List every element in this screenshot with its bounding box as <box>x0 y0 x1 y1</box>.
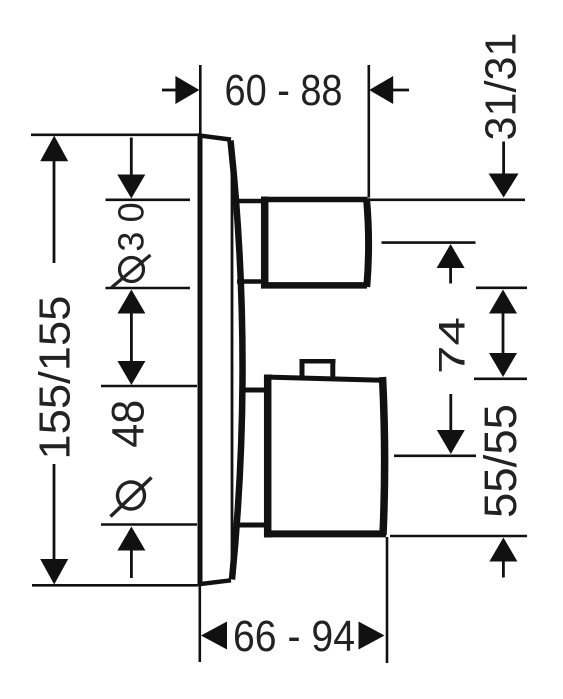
dim 155/155 bottom arrowhead <box>40 559 68 585</box>
extension line d30 bottom <box>106 287 191 290</box>
top stem lower edge <box>237 279 263 284</box>
bottom knob tab left side <box>300 359 305 377</box>
svg-text:155/155: 155/155 <box>31 296 80 460</box>
dim d48 bottom arrow tail <box>130 549 133 578</box>
dim 155/155 line upper <box>53 159 56 263</box>
top stem upper edge <box>237 199 263 204</box>
svg-text:60 - 88: 60 - 88 <box>225 66 343 115</box>
d30 diameter symbol circle <box>120 258 144 282</box>
double arrow right lower head <box>489 353 517 377</box>
extension line bottom knob bottom right <box>390 535 527 538</box>
svg-text:48: 48 <box>103 400 154 448</box>
dim 74 top arrowhead <box>437 244 465 268</box>
extension line top knob centerline <box>382 241 476 244</box>
dim 55/55 bottom arrowhead <box>489 538 517 562</box>
dim 31/31 arrow tail <box>502 142 505 176</box>
d48 diameter symbol slash <box>111 478 152 517</box>
bottom knob front edge <box>383 377 385 535</box>
d48 diameter symbol circle <box>118 482 145 509</box>
dim 74 bottom tail <box>449 394 452 431</box>
double arrow left shaft <box>130 312 133 363</box>
svg-text:55/55: 55/55 <box>475 404 526 518</box>
svg-text:0: 0 <box>110 202 151 222</box>
extension line d48 bottom <box>101 523 197 526</box>
svg-text:66 - 94: 66 - 94 <box>233 612 355 661</box>
dim 60-88 left arrow tail <box>162 89 177 92</box>
extension line 66-94 right <box>386 537 389 663</box>
bottom knob bottom edge <box>264 530 386 537</box>
dim 155/155 line lower <box>53 464 56 562</box>
plate left edge <box>198 134 203 586</box>
extension line 66-94 left <box>199 583 202 662</box>
dim 60-88 left arrowhead <box>175 76 199 104</box>
svg-text:74: 74 <box>432 317 473 374</box>
dim 66-94 right arrowhead <box>359 622 385 650</box>
bottom knob top edge <box>264 377 383 380</box>
dim 60-88 right arrowhead <box>369 76 393 104</box>
plate face inner line <box>231 141 234 578</box>
bottom knob tab right side <box>330 359 335 377</box>
dim 31/31 arrowhead <box>489 174 519 198</box>
bottom stem upper edge <box>241 388 266 393</box>
extension line knob top right <box>368 199 525 202</box>
dim 55/55 bottom tail <box>502 560 505 578</box>
svg-text:31/31: 31/31 <box>477 33 526 141</box>
top knob front edge <box>367 199 369 288</box>
svg-text:3: 3 <box>110 232 151 252</box>
top knob top edge <box>261 197 368 203</box>
double arrow right upper head <box>489 290 517 314</box>
extension line top knob bottom right <box>476 286 527 289</box>
bottom knob back edge <box>264 375 272 538</box>
extension line 60-88 left <box>199 65 202 134</box>
double arrow left upper head (d30 bottom) <box>117 290 145 314</box>
double arrow right shaft <box>502 312 505 354</box>
bottom stem lower edge <box>238 523 266 528</box>
top knob back edge <box>261 197 269 289</box>
extension line d48 top <box>101 385 197 388</box>
dim d30 top arrowhead <box>117 175 145 199</box>
plate top edge <box>198 135 231 139</box>
dim 155/155 top arrowhead <box>40 136 68 162</box>
dim 60-88 right arrow tail <box>393 89 409 92</box>
dim d48 bottom arrowhead <box>117 527 145 551</box>
plate bottom edge <box>198 580 231 584</box>
dim 74 top tail <box>449 267 452 284</box>
extension line bottom knob centerline <box>394 454 476 457</box>
top knob bottom edge <box>261 282 367 289</box>
dim 74 bottom arrowhead <box>437 430 465 454</box>
plate outer curved edge <box>231 141 243 580</box>
extension line plate bottom left <box>32 584 198 587</box>
extension line d30 top <box>106 199 191 202</box>
bottom knob tab top <box>300 359 336 364</box>
extension line plate top left <box>31 134 198 137</box>
extension line 60-88 right <box>367 65 370 198</box>
dim d30 top arrow tail <box>130 138 133 177</box>
double arrow left lower head (d48 top) <box>117 361 145 385</box>
extension line bottom knob top right <box>474 377 527 380</box>
d30 diameter symbol slash <box>112 255 151 288</box>
dim 66-94 left arrowhead <box>201 622 227 650</box>
